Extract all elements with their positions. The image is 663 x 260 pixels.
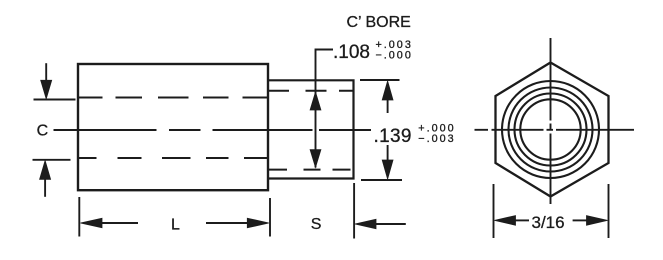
leader from .108 text xyxy=(316,50,334,168)
stud bore hidden line lower xyxy=(269,169,351,171)
stud outline (side view, threaded section S) xyxy=(268,80,354,178)
svg-text:−.000: −.000 xyxy=(376,49,413,61)
svg-text:S: S xyxy=(311,216,322,233)
S outside arrow pointing left xyxy=(374,223,406,225)
svg-text:3/16: 3/16 xyxy=(532,213,565,232)
svg-text:.108: .108 xyxy=(333,42,370,63)
.108 dimension leader and arrows xyxy=(310,50,333,168)
body bore hidden line upper xyxy=(78,97,268,99)
bore circle xyxy=(520,99,580,159)
S dimension xyxy=(354,183,406,239)
.139 bottom extension bar xyxy=(361,179,402,181)
C down arrow xyxy=(45,63,47,81)
stud bore hidden line upper xyxy=(269,90,354,92)
3/16 left arrow xyxy=(515,219,529,221)
C upper extension bar xyxy=(34,99,76,101)
svg-text:−.003: −.003 xyxy=(418,133,455,145)
vertical centerline of hex view xyxy=(550,38,552,204)
up arrowhead at stud bore top xyxy=(310,92,321,110)
body bore hidden line lower xyxy=(78,157,268,159)
C dimension arrows (left) xyxy=(33,63,76,197)
S right extension line xyxy=(353,183,355,239)
L right arrow xyxy=(206,222,248,224)
.139 dimension xyxy=(360,80,402,180)
C up arrow xyxy=(44,180,46,197)
L dimension xyxy=(79,197,270,237)
svg-text:C: C xyxy=(37,123,49,140)
hexagon outline xyxy=(496,63,609,197)
thread minor circle xyxy=(515,94,587,166)
thread major circle xyxy=(509,88,593,172)
horizontal centerline left part xyxy=(54,129,372,131)
C lower extension bar xyxy=(33,159,71,161)
svg-text:C’ BORE: C’ BORE xyxy=(347,14,411,31)
3/16 right extension line xyxy=(608,184,610,238)
.139 top extension bar xyxy=(360,79,400,81)
thread chamfer circle xyxy=(502,81,599,178)
.139 down arrow xyxy=(387,145,389,161)
svg-text:L: L xyxy=(171,216,180,233)
body outline (side view) xyxy=(78,64,268,190)
3/16 left extension line xyxy=(493,184,495,238)
svg-text:.139: .139 xyxy=(374,126,412,147)
.139 up arrow xyxy=(387,99,389,113)
L left extension line xyxy=(78,197,80,237)
3/16 dimension xyxy=(494,184,609,238)
L right extension line xyxy=(269,198,271,237)
horizontal centerline right part through hex xyxy=(475,129,635,131)
L left arrow xyxy=(101,222,138,224)
down arrowhead at stud bore bottom xyxy=(310,150,321,168)
3/16 right arrow xyxy=(573,219,587,221)
